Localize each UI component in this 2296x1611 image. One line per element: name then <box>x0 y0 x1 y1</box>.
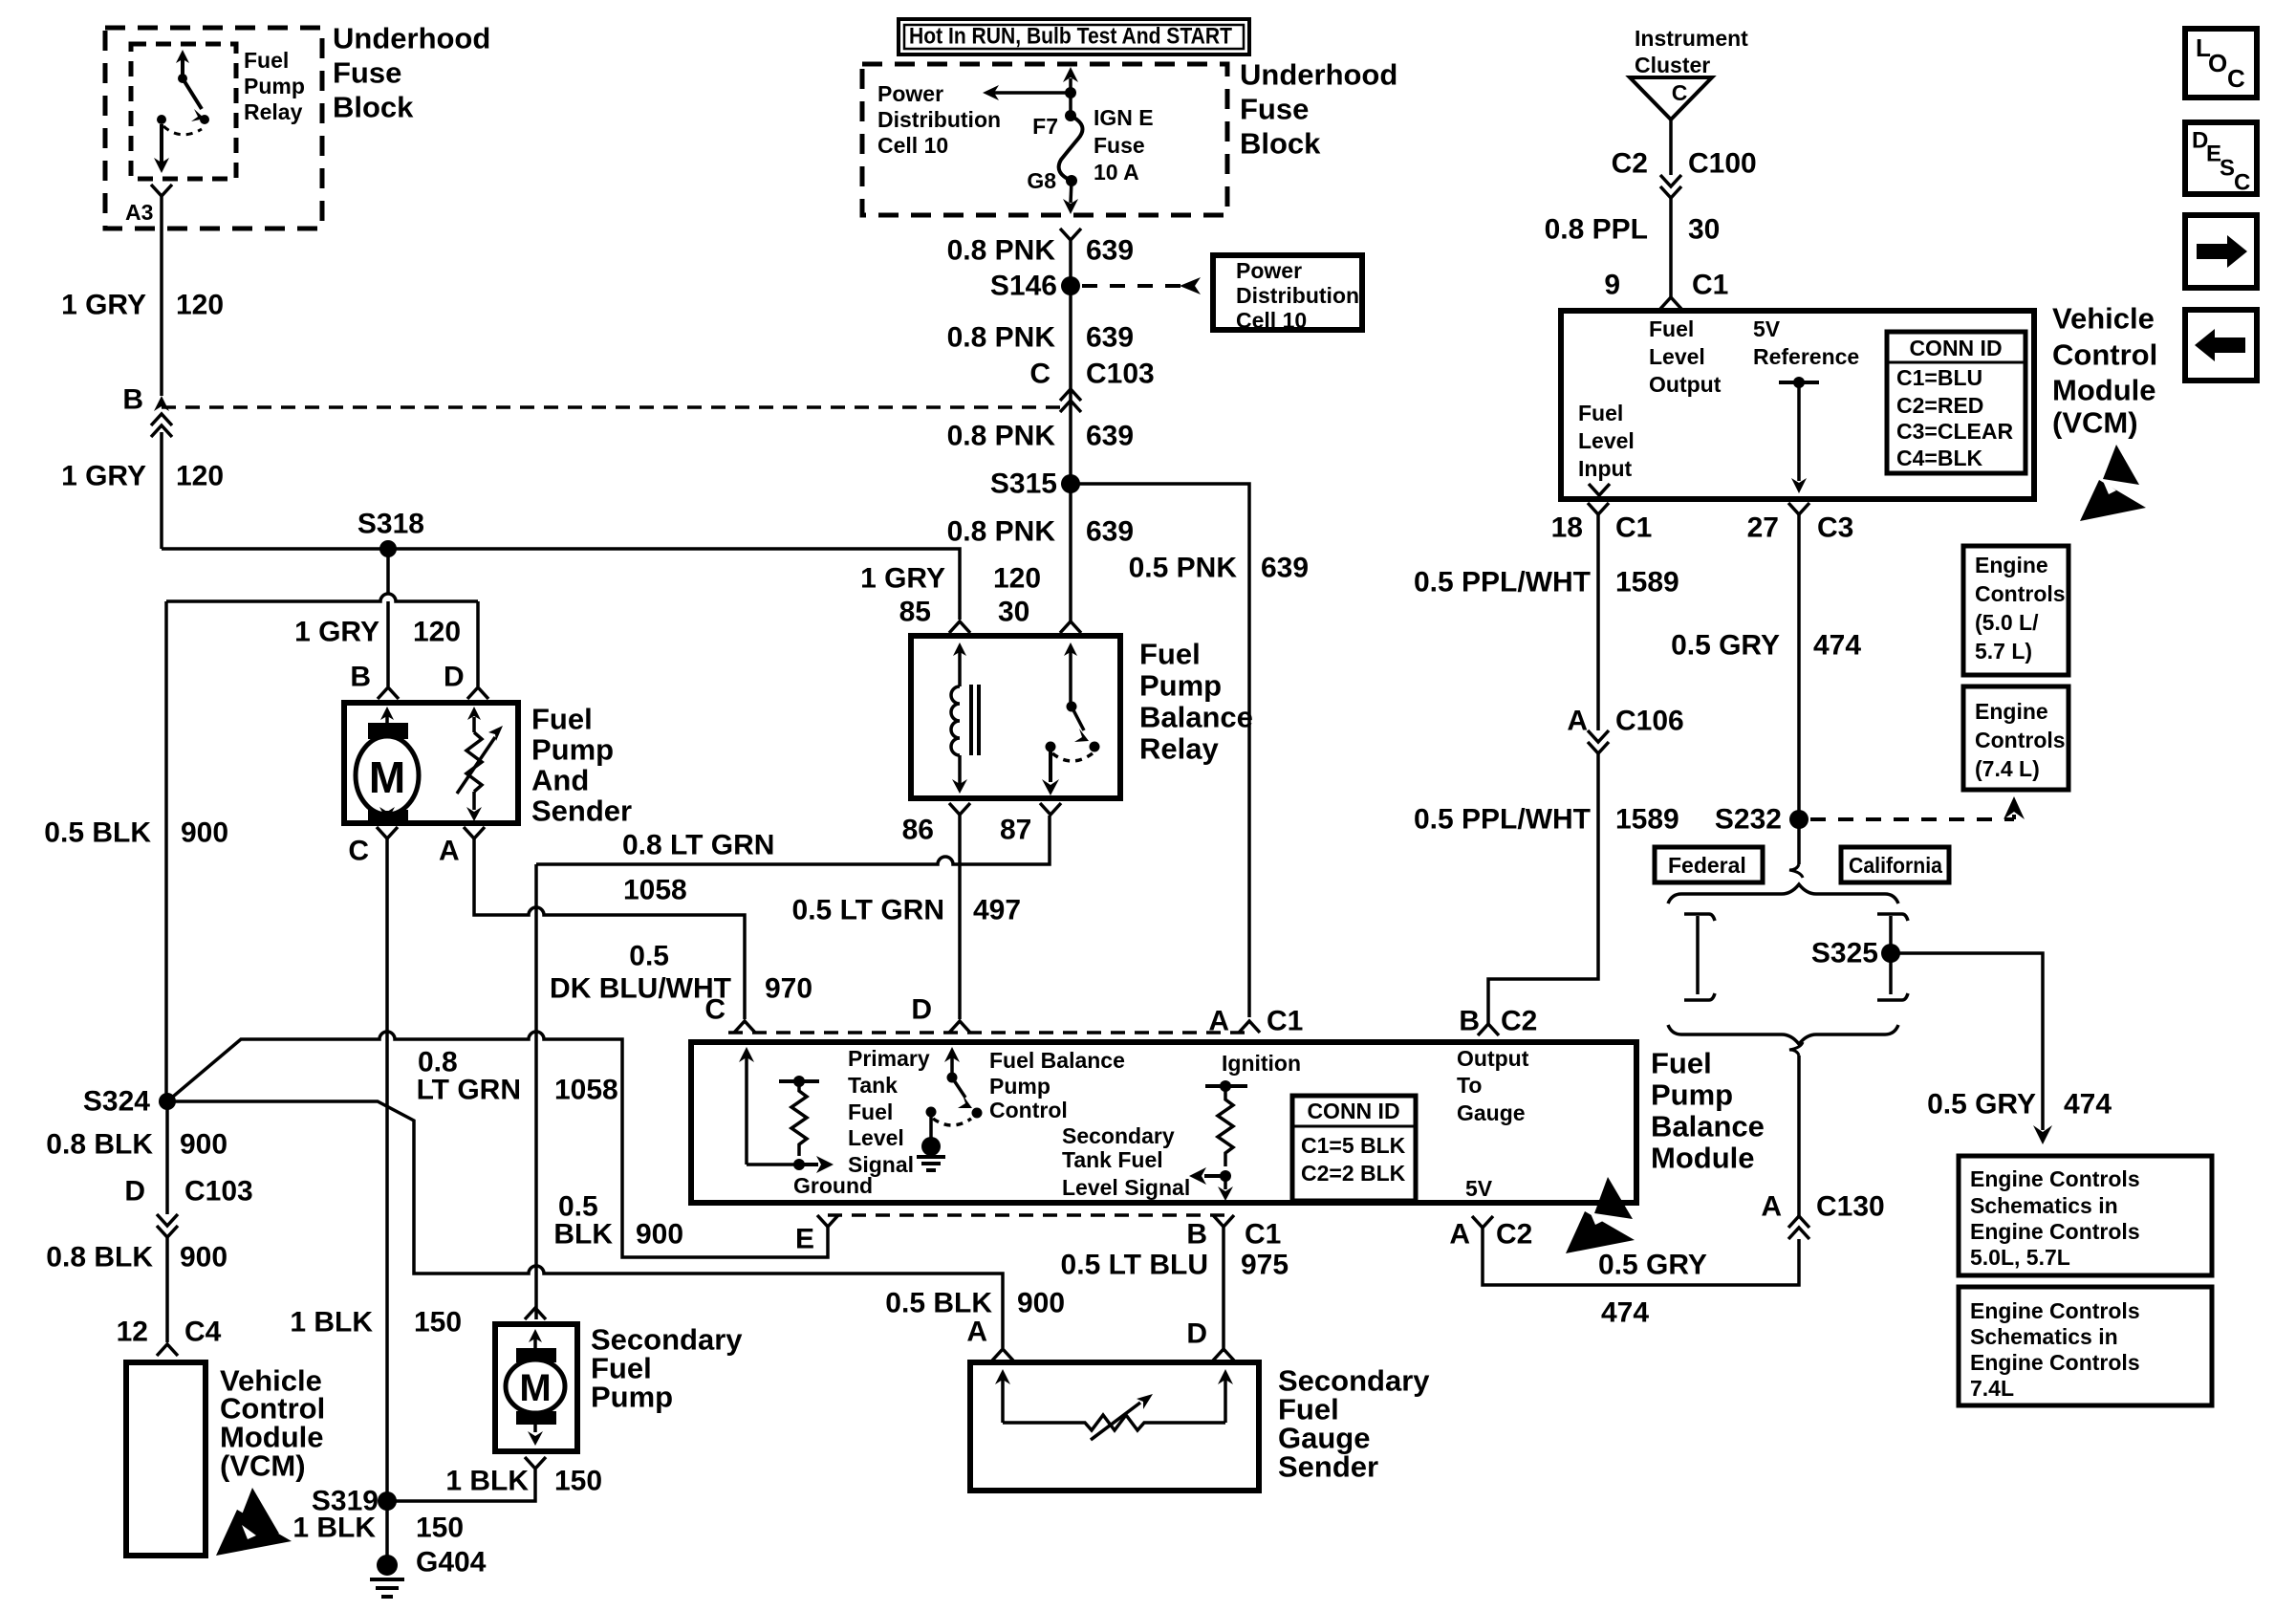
svg-text:Fuel: Fuel <box>1139 638 1201 671</box>
wire 0.5 GRY 474 from C130 to module A C2 <box>1483 1228 1799 1285</box>
wire from A to C terminal (0.5 DK BLU/WHT 970) <box>474 838 745 1019</box>
svg-text:18: 18 <box>1551 512 1583 544</box>
node at arrow junction <box>1065 87 1076 98</box>
svg-text:Primary: Primary <box>848 1046 930 1071</box>
label 0.5 PPL/WHT 1589 (second) <box>1414 804 1679 836</box>
relay switch <box>1042 642 1100 795</box>
label 0.8 PNK 639 (second) <box>947 322 1134 354</box>
svg-text:Sender: Sender <box>531 795 632 828</box>
Instrument Cluster label <box>1635 26 1748 77</box>
svg-text:Engine Controls: Engine Controls <box>1970 1350 2140 1375</box>
svg-text:30: 30 <box>1688 214 1720 246</box>
svg-text:474: 474 <box>1813 630 1861 662</box>
wire from S318 down to split <box>386 549 390 595</box>
relay switch (fuel pump relay) <box>154 50 209 173</box>
label 0.8 LT GRN 1058 (vertical) <box>417 1047 618 1106</box>
wire inside fuse box with up arrow <box>1069 78 1072 93</box>
labels B D <box>350 662 464 693</box>
svg-text:975: 975 <box>1241 1250 1289 1281</box>
svg-text:Cell 10: Cell 10 <box>877 133 948 158</box>
Engine Controls (5.0L/5.7L) box <box>1963 546 2069 675</box>
svg-text:F7: F7 <box>1032 114 1058 139</box>
chevron D <box>949 1021 970 1033</box>
left arrow box <box>2185 310 2257 381</box>
label 0.8 PNK 639 (third, below C103) <box>947 421 1134 452</box>
svg-text:9: 9 <box>1604 270 1620 301</box>
svg-text:IGN E: IGN E <box>1094 105 1154 130</box>
svg-text:C: C <box>1672 80 1688 105</box>
svg-text:Ground: Ground <box>793 1173 873 1198</box>
svg-text:Engine: Engine <box>1975 553 2048 577</box>
balance pump control switch <box>917 1047 983 1170</box>
svg-text:D: D <box>1186 1318 1207 1350</box>
Fuel Pump Relay inner dashed box <box>131 44 236 179</box>
label 0.5 GRY 474 <box>1671 630 1861 662</box>
wire S319 down to G404 (1 BLK 150) <box>385 1501 389 1557</box>
svg-text:Pump: Pump <box>531 733 614 767</box>
svg-text:(VCM): (VCM) <box>2052 406 2138 440</box>
svg-text:A: A <box>1449 1219 1470 1251</box>
svg-text:C100: C100 <box>1688 148 1757 180</box>
svg-text:12: 12 <box>117 1317 148 1348</box>
svg-text:Secondary: Secondary <box>1062 1123 1175 1148</box>
label 0.5 LT BLU 975 <box>1061 1250 1289 1281</box>
ESD symbol (VCM bottom) <box>216 1488 292 1556</box>
chevron below fuse box <box>1060 229 1081 240</box>
wire lower brace to A C130 <box>1797 1056 1801 1216</box>
label Fuel Pump And Sender <box>531 703 632 828</box>
label Fuel Pump Balance Relay <box>1139 638 1253 766</box>
wire S318 horizontal to relay 85 <box>162 549 960 620</box>
svg-text:Power: Power <box>1236 258 1302 283</box>
label 0.5 BLK 900 (sender A wire) <box>885 1288 1065 1319</box>
label Power Distribution Cell 10 (inside fuse box) <box>877 81 1001 158</box>
label 0.5 GRY 474 (S325 branch) <box>1927 1089 2112 1121</box>
svg-text:Distribution: Distribution <box>877 107 1001 132</box>
label 1 GRY 120 (second) <box>61 461 224 492</box>
svg-text:Pump: Pump <box>1139 669 1222 703</box>
svg-text:0.5 BLK: 0.5 BLK <box>885 1288 992 1319</box>
svg-text:LT GRN: LT GRN <box>417 1075 521 1106</box>
wire S315 down to relay 30 <box>1069 484 1072 621</box>
wire 0.5 GRY 474 down to S232 <box>1797 514 1801 864</box>
svg-text:900: 900 <box>636 1219 683 1251</box>
svg-text:Power: Power <box>877 81 943 106</box>
svg-text:150: 150 <box>416 1513 464 1544</box>
motor M (secondary fuel pump) <box>506 1329 565 1446</box>
svg-text:30: 30 <box>998 597 1029 628</box>
node S325 <box>1881 944 1900 963</box>
svg-text:Ignition: Ignition <box>1222 1051 1301 1076</box>
svg-text:1058: 1058 <box>623 875 687 906</box>
svg-text:C2=2 BLK: C2=2 BLK <box>1301 1161 1406 1186</box>
label 1 BLK 150 (ground side) <box>292 1513 464 1544</box>
label Primary Tank Fuel Level Signal <box>848 1046 930 1177</box>
svg-text:120: 120 <box>176 461 224 492</box>
svg-text:Tank: Tank <box>848 1073 898 1098</box>
svg-text:S325: S325 <box>1811 938 1878 969</box>
svg-text:Input: Input <box>1578 456 1633 481</box>
svg-text:C103: C103 <box>1086 359 1155 390</box>
svg-text:A: A <box>1208 1006 1229 1037</box>
svg-text:Block: Block <box>1240 127 1321 161</box>
label: Fuel Pump Relay <box>244 48 305 124</box>
sender internal circuit <box>995 1369 1233 1440</box>
svg-text:0.8 BLK: 0.8 BLK <box>46 1242 153 1274</box>
svg-text:5.0L, 5.7L: 5.0L, 5.7L <box>1970 1245 2070 1270</box>
svg-text:CONN ID: CONN ID <box>1307 1099 1399 1123</box>
svg-text:0.5 PNK: 0.5 PNK <box>1129 553 1238 584</box>
node S146 <box>1061 276 1080 295</box>
svg-text:Balance: Balance <box>1139 701 1253 734</box>
svg-text:C: C <box>704 994 726 1026</box>
label 0.8 PNK 639 <box>947 235 1134 267</box>
svg-text:0.5 GRY: 0.5 GRY <box>1671 630 1780 662</box>
svg-text:Controls: Controls <box>1975 581 2066 606</box>
svg-text:0.5 LT BLU: 0.5 LT BLU <box>1061 1250 1208 1281</box>
Federal branch bracket wire <box>1684 914 1715 921</box>
wire S315 branch right to A C1 (0.5 PNK 639) <box>1071 484 1249 1017</box>
svg-text:California: California <box>1849 853 1942 878</box>
double chevron C103 <box>1060 389 1081 401</box>
Vehicle Control Module top box <box>1561 311 2034 499</box>
right arrow box <box>2185 215 2257 288</box>
Engine Controls Schematics 5.0L box <box>1959 1156 2212 1275</box>
label 0.8 BLK 900 <box>46 1129 227 1161</box>
svg-text:900: 900 <box>180 1129 227 1161</box>
CONN ID table (module) <box>1292 1096 1416 1201</box>
Vehicle Control Module (VCM) bottom box <box>126 1362 206 1556</box>
svg-text:Relay: Relay <box>1139 732 1219 766</box>
Fuel Pump And Sender box <box>344 703 518 823</box>
label 1 GRY 120 <box>61 290 224 321</box>
primary tank resistor <box>747 1076 834 1173</box>
svg-text:C4=BLK: C4=BLK <box>1896 446 1982 470</box>
Engine Controls (7.4 L) box <box>1963 686 2069 790</box>
Secondary Fuel Pump box <box>495 1324 577 1451</box>
label Ignition <box>1222 1051 1301 1076</box>
svg-text:1 GRY: 1 GRY <box>860 563 945 595</box>
node S324 <box>159 1093 176 1110</box>
5V reference node and wire <box>1779 381 1819 384</box>
connector C of C103 labels <box>1029 359 1154 390</box>
svg-text:1 BLK: 1 BLK <box>445 1466 529 1497</box>
wire 0.5 LT BLU 975 from module B down to sender D <box>1222 1227 1225 1352</box>
labels C D A C1 <box>704 994 1303 1037</box>
svg-text:Module: Module <box>2052 374 2156 407</box>
svg-text:C3: C3 <box>1817 512 1853 544</box>
svg-text:0.5 GRY: 0.5 GRY <box>1598 1250 1707 1281</box>
chevron A <box>1239 1021 1260 1033</box>
label Secondary Tank Fuel Level Signal <box>1062 1123 1190 1200</box>
svg-text:0.8 PNK: 0.8 PNK <box>947 516 1056 548</box>
svg-text:Fuel: Fuel <box>531 703 593 736</box>
connector B of C103: arrow + double chevron <box>154 396 169 411</box>
labels 85 30 <box>899 597 1030 628</box>
label: Underhood Fuse Block (left) <box>333 22 490 124</box>
svg-text:G8: G8 <box>1027 168 1056 193</box>
label A3 <box>125 200 153 225</box>
svg-text:Relay: Relay <box>244 99 303 124</box>
chevron A into sender box <box>992 1349 1013 1361</box>
connector 18 C1 chevron (below VCM) <box>1588 503 1609 514</box>
label Secondary Fuel Pump <box>591 1323 743 1414</box>
lower alternates brace <box>1668 1025 1898 1044</box>
label 0.5 PPL/WHT 1589 <box>1414 567 1679 599</box>
Underhood Fuse Block (middle) dashed box <box>862 64 1227 215</box>
label Underhood Fuse Block (middle) <box>1240 58 1397 161</box>
svg-text:Schematics in: Schematics in <box>1970 1324 2118 1349</box>
wire end squiggle above A C130 <box>1789 1042 1803 1056</box>
wire 1 GRY 120 (A3 down to B) <box>160 196 163 396</box>
svg-text:Balance: Balance <box>1651 1110 1765 1143</box>
svg-text:0.5: 0.5 <box>629 941 669 972</box>
svg-text:Vehicle: Vehicle <box>2052 302 2155 336</box>
svg-text:Controls: Controls <box>1975 728 2066 752</box>
label 1 GRY 120 (S318 to relay 85) <box>860 563 1041 595</box>
svg-text:Engine Controls: Engine Controls <box>1970 1298 2140 1323</box>
relay coil <box>951 642 979 794</box>
svg-text:150: 150 <box>554 1466 602 1497</box>
svg-text:474: 474 <box>1601 1297 1649 1329</box>
svg-text:C130: C130 <box>1816 1191 1885 1223</box>
wire 1 GRY 120 (B down to S318) <box>160 432 163 549</box>
wire 0.8 PPL 30 down to VCM 9 C1 <box>1669 198 1673 298</box>
connector A C2 chevron <box>1472 1216 1493 1228</box>
svg-text:0.8 PNK: 0.8 PNK <box>947 322 1056 354</box>
label D (sender) <box>1186 1318 1207 1350</box>
svg-text:Module: Module <box>1651 1142 1755 1175</box>
connector A C106 double chevron <box>1588 730 1609 742</box>
svg-text:Underhood: Underhood <box>333 22 490 55</box>
connector D C103 double chevron <box>157 1214 178 1226</box>
svg-text:Block: Block <box>333 91 414 124</box>
label 0.8 PNK 639 (fourth, S315 to relay 30) <box>947 516 1134 548</box>
svg-text:7.4L: 7.4L <box>1970 1376 2014 1401</box>
svg-text:Fuel Balance: Fuel Balance <box>989 1048 1125 1073</box>
wire E to S324 path (0.5 BLK 900) <box>167 1032 828 1257</box>
svg-text:S324: S324 <box>83 1086 150 1118</box>
wire 0.5 PPL/WHT 1589 down to C106 <box>1596 514 1600 730</box>
label Fuel Balance Pump Control <box>989 1048 1125 1122</box>
label 0.5 DK BLU/WHT 970 <box>550 941 812 1005</box>
chevron above secondary pump <box>525 1308 546 1319</box>
svg-text:Level: Level <box>1649 344 1705 369</box>
svg-text:S232: S232 <box>1715 804 1782 836</box>
wire end squiggle below S232 <box>1789 864 1803 878</box>
Hot In RUN box <box>899 19 1249 54</box>
svg-text:0.5 LT GRN: 0.5 LT GRN <box>792 895 944 926</box>
label Output To Gauge <box>1457 1046 1529 1125</box>
chevron C <box>734 1021 755 1033</box>
svg-text:Hot In RUN, Bulb Test And STAR: Hot In RUN, Bulb Test And START <box>909 24 1232 50</box>
svg-text:Instrument: Instrument <box>1635 26 1748 51</box>
label Vehicle Control Module (VCM) <box>220 1364 325 1483</box>
svg-text:Pump: Pump <box>244 74 305 98</box>
node S315 <box>1061 474 1080 493</box>
svg-text:0.8 PPL: 0.8 PPL <box>1545 214 1648 246</box>
svg-text:Engine: Engine <box>1975 699 2048 724</box>
svg-text:5V: 5V <box>1465 1176 1493 1201</box>
svg-text:120: 120 <box>993 563 1041 595</box>
svg-text:C1: C1 <box>1267 1006 1303 1037</box>
connector C2 C100 double chevron <box>1660 175 1681 186</box>
svg-text:Control: Control <box>989 1098 1068 1122</box>
node S232 <box>1789 810 1809 829</box>
label 1 BLK 150 <box>290 1307 462 1339</box>
svg-text:474: 474 <box>2064 1089 2112 1121</box>
svg-text:639: 639 <box>1086 235 1134 267</box>
svg-text:C: C <box>348 836 369 867</box>
Fuel Pump Balance Relay box <box>911 636 1120 798</box>
label 0.5 BLK 900 <box>44 817 228 849</box>
svg-text:C: C <box>2227 64 2245 93</box>
svg-text:1 GRY: 1 GRY <box>61 290 146 321</box>
label 0.8 LT GRN / 1058 (horizontal) <box>622 830 774 906</box>
svg-text:C103: C103 <box>184 1176 253 1208</box>
label 0.8 PPL 30 <box>1545 214 1721 246</box>
motor M (fuel pump) <box>356 707 419 823</box>
svg-text:120: 120 <box>176 290 224 321</box>
svg-text:0.8 BLK: 0.8 BLK <box>46 1129 153 1161</box>
label 0.8 BLK 900 (second) <box>46 1242 227 1274</box>
svg-text:27: 27 <box>1747 512 1779 544</box>
dashed arrow S232 to Engine Controls 7.4L <box>1810 817 2014 821</box>
svg-text:1 BLK: 1 BLK <box>290 1307 373 1339</box>
svg-text:(7.4 L): (7.4 L) <box>1975 756 2040 781</box>
svg-text:C1: C1 <box>1615 512 1652 544</box>
svg-text:87: 87 <box>1000 815 1031 846</box>
svg-text:(VCM): (VCM) <box>220 1449 306 1483</box>
wire 0.8 BLK 900 to VCM 12 C4 <box>165 1237 169 1342</box>
svg-text:Engine Controls: Engine Controls <box>1970 1219 2140 1244</box>
fuel level input chevron (inside box) <box>1589 484 1610 495</box>
label 0.5 GRY / 474 (bottom) <box>1598 1250 1707 1329</box>
svg-text:Fuel: Fuel <box>1578 401 1623 425</box>
svg-text:Level: Level <box>848 1125 904 1150</box>
wire 0.5 BLK 900 left branch down <box>164 601 168 1101</box>
svg-text:Output: Output <box>1457 1046 1529 1071</box>
svg-text:900: 900 <box>181 817 228 849</box>
svg-text:Federal: Federal <box>1668 853 1746 878</box>
svg-text:C1: C1 <box>1692 270 1728 301</box>
svg-text:639: 639 <box>1086 421 1134 452</box>
label A (sender) <box>966 1317 987 1348</box>
svg-text:Fuse: Fuse <box>1094 133 1145 158</box>
svg-text:S: S <box>2220 156 2235 182</box>
svg-text:Schematics in: Schematics in <box>1970 1193 2118 1218</box>
svg-text:Fuse: Fuse <box>333 56 401 90</box>
svg-text:Distribution: Distribution <box>1236 283 1359 308</box>
svg-text:639: 639 <box>1086 516 1134 548</box>
Underhood Fuse Block (left) dashed box <box>105 28 322 229</box>
svg-text:C2: C2 <box>1612 148 1648 180</box>
svg-text:Tank Fuel: Tank Fuel <box>1062 1147 1163 1172</box>
svg-text:0.5 PPL/WHT: 0.5 PPL/WHT <box>1414 804 1591 836</box>
LOC box <box>2185 29 2257 98</box>
svg-text:0.5 PPL/WHT: 0.5 PPL/WHT <box>1414 567 1591 599</box>
svg-text:And: And <box>531 764 589 797</box>
ignition resistor (module) <box>1189 1080 1247 1201</box>
svg-text:(5.0 L/: (5.0 L/ <box>1975 610 2039 635</box>
Power Distribution Cell 10 box (right) <box>1213 255 1362 330</box>
svg-text:D: D <box>911 994 932 1026</box>
svg-text:1589: 1589 <box>1615 567 1679 599</box>
ESD symbol (VCM top) <box>2080 445 2146 521</box>
svg-text:1 BLK: 1 BLK <box>292 1513 376 1544</box>
label Fuel Level Output <box>1649 316 1722 397</box>
svg-text:Fuel: Fuel <box>848 1099 893 1124</box>
label 5V <box>1465 1176 1493 1201</box>
chevrons into pump box <box>378 687 399 699</box>
node S318 <box>379 540 397 557</box>
module ground input arrow <box>745 1056 748 1165</box>
svg-text:C1: C1 <box>1245 1219 1281 1251</box>
svg-text:1589: 1589 <box>1615 804 1679 836</box>
Federal box <box>1655 847 1763 882</box>
svg-text:0.8 LT GRN: 0.8 LT GRN <box>622 830 774 861</box>
label Fuel Level Input <box>1578 401 1635 481</box>
svg-text:B: B <box>1186 1219 1207 1251</box>
svg-text:C1=BLU: C1=BLU <box>1896 365 1982 390</box>
fuse F7/G8 IGN E 10A <box>1065 110 1076 121</box>
wire 0.5 LT GRN 497 from relay 86 down to module D <box>958 815 962 1019</box>
svg-text:85: 85 <box>899 597 931 628</box>
svg-text:Engine Controls: Engine Controls <box>1970 1166 2140 1191</box>
Secondary Fuel Gauge Sender box <box>970 1362 1259 1491</box>
svg-text:Pump: Pump <box>591 1381 673 1414</box>
label B <box>122 384 143 416</box>
svg-text:C: C <box>2234 170 2250 196</box>
ground G404 <box>377 1555 398 1576</box>
svg-text:Control: Control <box>2052 338 2157 372</box>
upper alternates brace <box>1668 884 1898 903</box>
California branch bracket wire <box>1877 914 1908 921</box>
label 5V Reference <box>1753 316 1859 369</box>
ESD symbol (module) <box>1566 1177 1635 1253</box>
wire D branch down to pump <box>476 601 480 686</box>
instrument cluster triangle C <box>1630 77 1712 120</box>
svg-text:Fuel: Fuel <box>1651 1047 1712 1080</box>
connector 9 C1 chevron <box>1660 297 1681 309</box>
svg-text:E: E <box>795 1224 814 1255</box>
svg-text:900: 900 <box>180 1242 227 1274</box>
svg-text:B: B <box>122 384 143 416</box>
Fuel Pump Balance Module box <box>691 1042 1636 1203</box>
connector A3 chevron <box>151 185 172 196</box>
label Secondary Fuel Gauge Sender <box>1278 1364 1430 1484</box>
wire 0.8 BLK 900 S324 down to D C103 <box>165 1101 169 1214</box>
label 1 BLK 150 (pump side) <box>445 1466 602 1497</box>
svg-text:900: 900 <box>1017 1288 1065 1319</box>
chevrons below pump box C and A <box>377 827 398 838</box>
DESC box <box>2185 122 2257 194</box>
wire S324 to secondary sender A (0.5 BLK 900) <box>167 1101 1003 1348</box>
svg-text:C: C <box>1029 359 1051 390</box>
chevrons into relay <box>949 621 970 633</box>
wire S319 to secondary pump (1 BLK 150) <box>387 1469 535 1501</box>
svg-text:A: A <box>966 1317 987 1348</box>
svg-text:B: B <box>350 662 371 693</box>
wire 0.5 PPL/WHT 1589 down to module B C2 <box>1488 753 1598 1024</box>
svg-text:Output: Output <box>1649 372 1722 397</box>
svg-text:86: 86 <box>902 815 934 846</box>
svg-text:0.5 GRY: 0.5 GRY <box>1927 1089 2036 1121</box>
label 1 GRY 120 (third, at pump B) <box>294 617 461 648</box>
connector B C2 chevron <box>1478 1024 1499 1035</box>
svg-text:M: M <box>369 752 405 802</box>
chevron D into sender box <box>1213 1349 1234 1361</box>
